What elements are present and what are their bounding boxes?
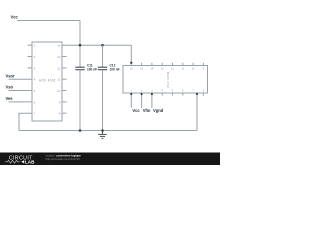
svg-text:nicolas / conversion logique: nicolas / conversion logique [46, 153, 82, 157]
svg-text:Vsor: Vsor [6, 73, 16, 78]
svg-text:Vcc: Vcc [11, 15, 19, 20]
wire U2 gnd pin riser [196, 93, 198, 131]
svg-text:Vfm: Vfm [143, 108, 151, 113]
svg-text:Vcc: Vcc [132, 108, 140, 113]
svg-text:C11: C11 [87, 63, 93, 67]
wire C12 top from Vcc rail [102, 45, 104, 67]
svg-text:11: 11 [57, 78, 60, 82]
U2 top pin numbers [130, 68, 205, 71]
U2 bottom stubs [162, 93, 203, 96]
capacitor C11 [75, 67, 84, 70]
footer bar [0, 153, 220, 166]
wire U1 pin 7 to ground rail [19, 113, 32, 130]
wire U2 bottom pin3 to net Vgnd [151, 93, 153, 108]
terminal dot [151, 93, 153, 95]
U2 top stubs [142, 63, 204, 66]
wire Vcc horizontal [17, 20, 80, 22]
U1 pin 3 stub [28, 67, 33, 69]
junction dot at x80 on Vcc rail [79, 44, 82, 47]
svg-text:http://circuitlab.com/c322766: http://circuitlab.com/c322766 [46, 157, 81, 161]
wire U2 bottom pin2 to net Vfm [141, 93, 143, 108]
wire net Vso to U1 pin 5 [9, 90, 33, 92]
wire corner down to U2 pin [130, 45, 132, 65]
svg-text:MAX 232: MAX 232 [166, 72, 170, 89]
svg-text:C12: C12 [110, 63, 116, 67]
svg-text:Ves: Ves [6, 96, 14, 101]
U1 pin numbers left [34, 44, 36, 116]
svg-text:Vso: Vso [6, 85, 14, 90]
wire Vcc corner down to C11 branch [79, 21, 81, 68]
U1 pin 2 stub [28, 56, 33, 58]
terminal dot [141, 93, 143, 95]
wire net Ves to U1 pin 6 [9, 101, 33, 103]
U2 bottom pin numbers [131, 90, 205, 93]
svg-text:12: 12 [57, 66, 61, 70]
terminal dot [130, 93, 132, 95]
U1 pin numbers right [57, 44, 61, 116]
svg-text:LAB: LAB [25, 159, 35, 164]
ground symbol [98, 131, 107, 139]
capacitor C12 [98, 67, 107, 70]
U1 right stubs pins 14..8 [62, 56, 67, 58]
svg-text:13: 13 [57, 55, 61, 59]
wire pin14 Vcc rail [62, 44, 131, 46]
svg-text:14: 14 [57, 44, 61, 48]
svg-text:100 nF: 100 nF [110, 68, 120, 72]
terminal dot U2 top pin 1 [130, 62, 132, 64]
wire C11 bottom to ground rail [79, 70, 81, 131]
junction dot rail x80 [79, 129, 82, 132]
svg-text:10: 10 [57, 89, 61, 93]
wire U2 bottom pin1 to net Vcc [130, 93, 132, 108]
svg-text:Vgnd: Vgnd [153, 108, 164, 113]
logo arrow LAB [21, 160, 24, 163]
svg-text:HCF 4001: HCF 4001 [39, 79, 56, 83]
terminal dot U2 gnd pin [196, 93, 198, 95]
U1 pin 1 stub [28, 44, 33, 46]
IC U2 body [123, 66, 208, 94]
svg-text:100 nF: 100 nF [87, 68, 97, 72]
junction dot at x102.5 on Vcc rail [101, 44, 104, 47]
ground rail wire [19, 130, 197, 132]
wire C12 bottom to ground rail [102, 70, 104, 131]
IC U1 HCF4001 body [32, 42, 62, 121]
junction dot rail x102.5 [101, 129, 104, 132]
logo resistor zigzag [5, 160, 20, 163]
wire net Vsor to U1 pin 4 [9, 78, 33, 80]
